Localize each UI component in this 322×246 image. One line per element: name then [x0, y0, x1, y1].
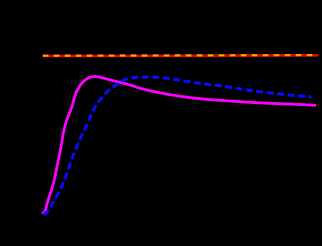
magenta solid curve [42, 77, 316, 214]
blue dashed curve [44, 77, 312, 215]
red solid line (flat, top) [43, 54, 318, 57]
orange dashed line overlaid on red line [43, 54, 318, 57]
